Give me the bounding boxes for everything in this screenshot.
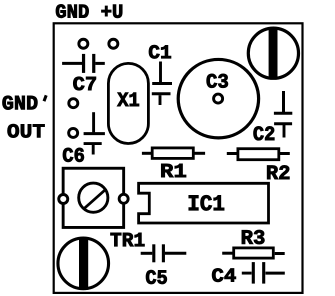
label X1 — [117, 93, 139, 106]
capacitor C7 — [62, 54, 105, 73]
label C6 — [63, 148, 84, 162]
label C3 — [207, 74, 228, 88]
label C1 — [149, 45, 171, 58]
label R1 — [161, 164, 186, 177]
capacitor C1 — [152, 62, 172, 106]
electrolytic capacitor (bottom left) — [58, 237, 109, 290]
label R2 — [267, 165, 289, 179]
label R3 — [242, 230, 264, 244]
IC IC1 (DIP outline with pin-1 notch) — [139, 183, 269, 223]
label C2 — [254, 126, 275, 140]
pad TR1 right — [119, 194, 128, 203]
pad +U — [109, 39, 118, 48]
pad TR1 left — [59, 195, 68, 204]
crystal X1 — [108, 63, 148, 143]
pad GND' — [69, 99, 78, 108]
net label GND' (left) — [3, 96, 38, 110]
label IC1 — [189, 195, 224, 210]
pad C3 center — [214, 94, 223, 103]
apostrophe of GND' — [44, 95, 46, 101]
electrolytic capacitor (top right) — [248, 27, 298, 80]
net label GND +U (top pads) — [56, 4, 122, 17]
net label OUT (left) — [8, 124, 45, 137]
capacitor C5 — [141, 244, 187, 262]
label C7 — [73, 77, 95, 90]
capacitor C3 (large can) — [178, 59, 258, 137]
board outline — [54, 23, 303, 293]
pad OUT — [69, 128, 78, 137]
resistor R1 — [142, 148, 205, 159]
pad GND — [79, 39, 88, 48]
capacitor C2 — [274, 91, 292, 138]
resistor R2 — [227, 149, 290, 160]
label C5 — [146, 270, 167, 284]
label TR1 — [111, 233, 145, 246]
label C4 — [212, 268, 236, 281]
trimmer TR1 — [59, 168, 128, 227]
capacitor C6 — [84, 112, 105, 154]
